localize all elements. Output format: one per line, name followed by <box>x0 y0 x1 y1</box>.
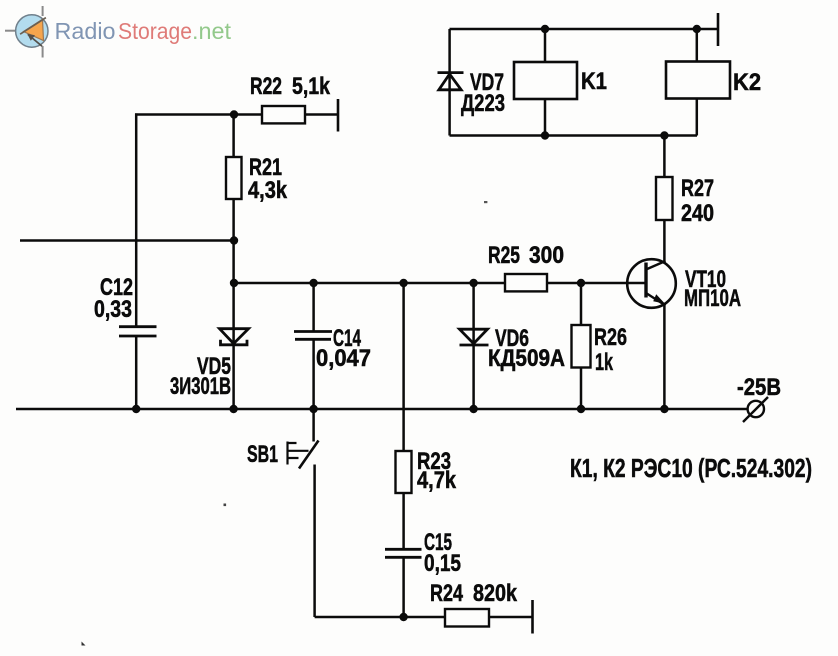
diode VD6 <box>460 329 489 345</box>
TERMINALS <box>338 13 768 634</box>
resistor R23 <box>396 451 412 493</box>
node R23 top <box>399 279 407 287</box>
svg-text:R26: R26 <box>594 324 627 351</box>
wire R21/VD5 column <box>232 115 235 410</box>
svg-text:K1: K1 <box>581 68 607 95</box>
node top K1 <box>541 25 549 33</box>
wire R22 left lead <box>234 113 262 116</box>
wire K2 column <box>696 29 699 136</box>
wire input line <box>20 239 234 242</box>
wire ground rail <box>16 408 748 411</box>
relay K1 coil <box>514 62 577 99</box>
wire VD7 column <box>448 29 451 136</box>
speck mid relay <box>484 201 487 203</box>
RELAYS <box>514 62 730 100</box>
node mid rail left <box>230 279 238 287</box>
node input/R21 <box>230 236 238 244</box>
wire R26 column <box>580 283 583 409</box>
node R22/R21 top <box>230 110 238 118</box>
switch SB1 <box>288 441 319 469</box>
svg-text:0,15: 0,15 <box>424 550 461 577</box>
svg-text:240: 240 <box>681 200 714 227</box>
svg-text:0,33: 0,33 <box>94 296 132 323</box>
svg-text:R25: R25 <box>488 242 520 269</box>
resistor R26 <box>572 325 591 368</box>
wire C14 column <box>312 283 315 409</box>
svg-text:R24: R24 <box>430 580 463 607</box>
wire left vertical (C12 column) <box>135 113 138 409</box>
diode VD5 (tunnel) <box>220 329 249 345</box>
svg-text:-25В: -25В <box>737 374 781 401</box>
svg-text:3И301В: 3И301В <box>170 373 231 400</box>
wire R22 right lead <box>305 113 338 116</box>
svg-text:.net: .net <box>192 18 231 44</box>
transistor VT10 <box>627 259 676 308</box>
capacitor C14 <box>294 332 332 340</box>
resistor R21 <box>226 157 242 199</box>
svg-text:Д223: Д223 <box>461 90 505 117</box>
svg-text:300: 300 <box>529 242 564 269</box>
node C14 top <box>309 279 317 287</box>
capacitor C12 <box>119 327 157 336</box>
resistor R27 <box>656 177 673 220</box>
DIODES <box>220 73 489 345</box>
wire relay bottom <box>450 134 698 137</box>
wire top-left horizontal <box>135 113 234 116</box>
node R26 top <box>577 279 585 287</box>
speck bottom left <box>82 642 86 646</box>
terminal bar after R22 <box>337 99 340 132</box>
node gnd VD5 <box>229 405 237 413</box>
wire K1 column <box>544 29 547 136</box>
terminal bar after R24 <box>531 600 534 634</box>
svg-text:1k: 1k <box>595 349 613 376</box>
svg-text:МП10А: МП10А <box>684 285 741 312</box>
diode VD7 <box>438 73 464 90</box>
resistor R25 <box>505 274 547 291</box>
svg-text:R22: R22 <box>250 73 282 100</box>
node VD6 top <box>469 279 477 287</box>
svg-text:4,7k: 4,7k <box>417 467 457 494</box>
capacitor C15 <box>385 549 422 557</box>
svg-text:К1, К2 РЭС10 (РС.524.302): К1, К2 РЭС10 (РС.524.302) <box>570 453 812 483</box>
terminal bar top right <box>717 13 720 46</box>
svg-text:R27: R27 <box>681 175 714 202</box>
svg-text:K2: K2 <box>733 69 761 96</box>
wire R27/VT10 column <box>663 136 666 410</box>
resistor R24 <box>445 609 489 627</box>
node gnd VT10 <box>660 405 668 413</box>
RESISTORS <box>226 106 673 627</box>
svg-text:SB1: SB1 <box>247 441 278 468</box>
svg-text:820k: 820k <box>473 580 518 607</box>
CAPACITORS <box>119 327 422 558</box>
node C15/R24 <box>399 613 407 621</box>
relay K2 coil <box>666 62 730 99</box>
wire bottom horizontal <box>315 616 533 619</box>
node bottom R27 <box>660 131 668 139</box>
svg-text:0,047: 0,047 <box>316 345 371 372</box>
svg-text:КД509А: КД509А <box>488 345 565 372</box>
node top K2 <box>693 25 701 33</box>
wire VD6 column <box>472 283 475 409</box>
node gnd C14/SB1 <box>309 405 317 413</box>
node gnd R26 <box>577 405 585 413</box>
svg-text:4,3k: 4,3k <box>248 177 288 204</box>
node gnd C12 <box>132 405 140 413</box>
svg-text:5,1k: 5,1k <box>292 73 331 100</box>
node gnd VD6 <box>469 405 477 413</box>
svg-text:Radio: Radio <box>55 18 116 44</box>
wire SB1 lower column <box>313 465 316 618</box>
wire relay top <box>450 28 719 31</box>
resistor R22 <box>262 106 305 123</box>
logo RadioStorage.net <box>5 6 231 58</box>
wire SB1 upper stub <box>312 409 315 442</box>
node bottom K1 <box>541 131 549 139</box>
wire mid rail <box>234 282 646 285</box>
terminal -25V circle <box>748 401 764 417</box>
svg-text:Storage: Storage <box>118 18 192 44</box>
wire R23/C15 column <box>402 283 405 617</box>
speck near SB1 <box>224 504 227 507</box>
